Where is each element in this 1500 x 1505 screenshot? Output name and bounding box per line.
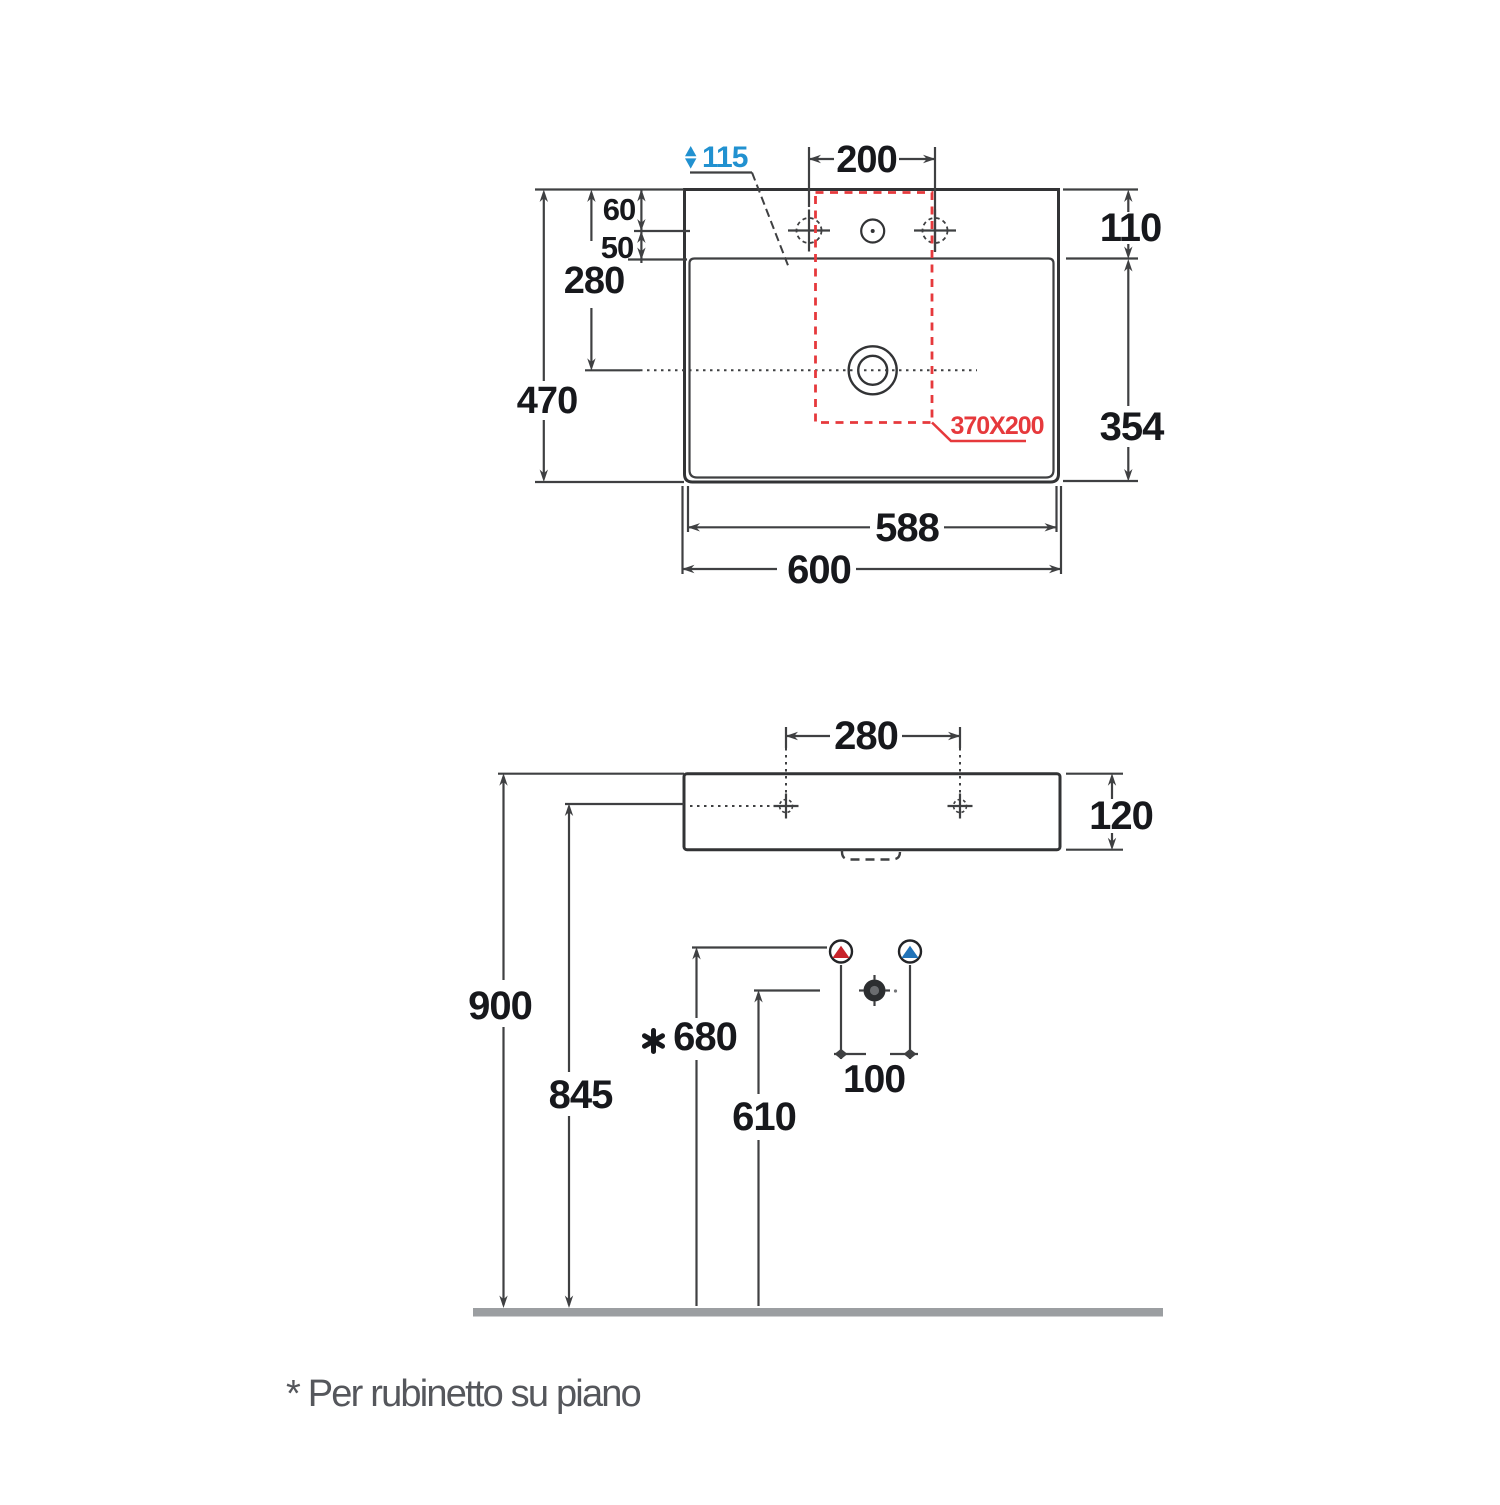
svg-text:115: 115 [702, 141, 748, 174]
waste outlet symbol [859, 975, 897, 1006]
svg-text:120: 120 [1089, 794, 1153, 838]
svg-text:680: 680 [673, 1015, 737, 1059]
svg-text:588: 588 [875, 506, 939, 550]
red dashed rectangle 370x200 [816, 193, 933, 423]
dimension 600 (total width) [682, 486, 1062, 592]
dotted centerline (front) [690, 805, 777, 807]
hot water symbol [830, 941, 852, 963]
dimension 845 (tap holes height) [549, 804, 684, 1309]
dimension 680 (water supply height) [645, 947, 828, 1306]
svg-text:610: 610 [732, 1095, 796, 1139]
drain dotted centerline [640, 369, 977, 371]
faucet hole left (crosshair) [788, 210, 830, 252]
drain inner circle [858, 356, 887, 385]
drain centerline solid stub [585, 369, 640, 371]
svg-text:110: 110 [1100, 206, 1162, 250]
svg-text:100: 100 [843, 1058, 905, 1101]
dimension 280 (edge to drain center) [564, 190, 624, 371]
svg-text:60: 60 [603, 192, 635, 227]
floor line [473, 1308, 1163, 1317]
cold water symbol [899, 941, 921, 963]
svg-text:600: 600 [787, 548, 851, 592]
dimension 120 (body height) [1066, 773, 1153, 850]
leader line from 115 [690, 171, 752, 173]
faucet hole right (front, crosshair) [948, 794, 973, 819]
red leader line [932, 423, 1026, 442]
dimension 900 (rim height) [468, 773, 684, 1308]
basin inner bowl outline (plan) [690, 259, 1054, 478]
dimension 200 (tap holes distance) [809, 139, 936, 252]
dimension 280 (front tap holes) [786, 714, 961, 794]
dimension 100 (supply spacing) [834, 965, 918, 1101]
svg-text:280: 280 [564, 260, 624, 302]
svg-text:845: 845 [549, 1073, 613, 1117]
svg-text:200: 200 [836, 139, 896, 181]
asterisk mark [645, 1031, 663, 1052]
dimension 588 (bowl width) [688, 486, 1058, 550]
faucet hole left (front, crosshair) [774, 794, 799, 819]
dimension 110 (ledge depth) [1063, 190, 1161, 260]
basin body (front) [684, 774, 1060, 850]
faucet hole right (crosshair) [914, 210, 956, 252]
basin outer outline (plan) [685, 190, 1059, 483]
dimension 60 (edge to holes) [603, 189, 690, 243]
drain outer circle [849, 346, 897, 394]
drain trap dashed outline [842, 850, 900, 860]
center tap hole circle [861, 220, 884, 243]
dimension 470 (total depth) [517, 190, 684, 483]
dimension 610 (waste height) [732, 990, 820, 1306]
blue height arrow glyph [685, 146, 696, 169]
svg-text:900: 900 [468, 984, 532, 1028]
svg-text:370X200: 370X200 [950, 412, 1043, 440]
svg-text:* Per rubinetto su piano: * Per rubinetto su piano [286, 1373, 641, 1415]
svg-text:470: 470 [517, 380, 577, 422]
svg-text:354: 354 [1100, 405, 1165, 449]
svg-text:280: 280 [834, 714, 898, 758]
dimension 354 (bowl depth) [1063, 259, 1165, 482]
dimension 50 (holes to bowl) [601, 230, 687, 265]
